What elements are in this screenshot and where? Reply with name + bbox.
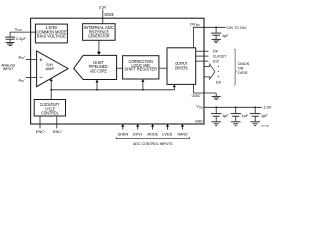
svg-text:3.3V: 3.3V (99, 6, 107, 10)
capacitor 2.2uF (5, 37, 15, 39)
node ENC+ label (36, 129, 46, 134)
node figure tag 2207 BD (261, 125, 270, 127)
svg-text:D0: D0 (216, 80, 222, 85)
svg-text:3.3V: 3.3V (263, 104, 271, 109)
wire LVDS input with arrow (167, 126, 169, 129)
node D0 label (216, 80, 222, 85)
ground below 2.2uF (9, 40, 11, 43)
block 16-BIT PIPELINED ADC CORE pentagon (74, 55, 117, 79)
wire CLKOUT output (196, 55, 209, 57)
svg-text:0.5V TO 3.6V: 0.5V TO 3.6V (227, 25, 247, 30)
node 0.5V TO 3.6V label (227, 25, 247, 30)
svg-text:BIAS VOLTAGE: BIAS VOLTAGE (37, 34, 66, 39)
node OF label (213, 48, 219, 53)
wire clock to correction logic with arrow (142, 82, 144, 90)
junction OVDD (215, 26, 217, 28)
node CMOS OR LVDS label (238, 61, 250, 75)
wire ENC+ pin (39, 116, 41, 128)
svg-text:GND: GND (195, 118, 202, 123)
wire SHDN input with arrow (122, 126, 124, 129)
wire clock distribution line (51, 87, 174, 90)
brace ADC control inputs (116, 137, 190, 139)
block OUTPUT DRIVERS (167, 48, 196, 85)
svg-text:MODE: MODE (147, 131, 158, 136)
svg-text:ENC+: ENC+ (36, 129, 46, 134)
node SENSE pin label (104, 12, 113, 17)
wire SENSE supply (102, 9, 104, 23)
svg-text:LVDS: LVDS (162, 131, 172, 136)
svg-text:VCM: VCM (15, 26, 23, 32)
svg-text:ENC−: ENC− (53, 129, 63, 134)
svg-text:SENSE: SENSE (104, 12, 113, 17)
block CORRECTION LOGIC AND SHIFT REGISTER (123, 56, 159, 79)
svg-text:AMP: AMP (45, 66, 54, 71)
svg-text:INPUT: INPUT (3, 66, 15, 71)
wire AIN+ (26, 59, 37, 61)
svg-text:ADC CONTROL INPUTS: ADC CONTROL INPUTS (133, 141, 173, 146)
node OVDD pin label (190, 21, 200, 27)
wire D15 output (196, 60, 209, 62)
wire OF output (196, 50, 209, 52)
ground below OVDD cap (215, 36, 217, 39)
svg-text:1µF: 1µF (222, 34, 229, 38)
svg-text:2.2µF: 2.2µF (16, 37, 26, 41)
node AIN+ label (18, 54, 25, 60)
wire VCM (10, 32, 35, 37)
node MODE label (147, 131, 158, 136)
junction clock line left (50, 89, 52, 91)
junction VDD cap1 (215, 106, 217, 108)
node LVDS label (162, 131, 172, 136)
svg-text:DD: DD (199, 105, 203, 109)
wire VDD supply rail (204, 106, 262, 108)
svg-text:DITH: DITH (133, 131, 142, 136)
junction clock at correction logic (142, 89, 144, 91)
junction VDD cap2 (235, 106, 237, 108)
junction VDD cap3 (254, 106, 256, 108)
wire DITH input with arrow (137, 126, 139, 129)
svg-text:SHDN: SHDN (118, 131, 129, 136)
node 3.3V label right (263, 104, 271, 109)
node VCM pin label (15, 26, 23, 32)
svg-text:SHIFT REGISTER: SHIFT REGISTER (124, 67, 157, 72)
data bus block arrow (204, 64, 215, 79)
wire clock to ADC core with arrow (96, 82, 98, 90)
node SHDN label (118, 131, 129, 136)
capacitor 1uF (VDD b) (231, 107, 241, 125)
svg-text:LVDS: LVDS (238, 70, 248, 75)
capacitor 1uF (VDD c) (250, 107, 260, 125)
svg-text:AIN−: AIN− (18, 77, 25, 83)
wire AIN- (26, 76, 37, 78)
svg-text:OGND: OGND (192, 93, 201, 98)
svg-text:ADC CORE: ADC CORE (90, 68, 107, 73)
node OGND pin label (192, 93, 201, 98)
svg-text:DRIVERS: DRIVERS (175, 65, 188, 70)
wire clock to S/H with arrow (50, 81, 52, 100)
wire ENC- pin (56, 116, 58, 128)
node ENC- label (53, 129, 63, 134)
op-amp S/H AMP (37, 51, 69, 87)
node RAND label (178, 131, 188, 136)
brace outputs (234, 49, 236, 86)
wire MODE input with arrow (152, 126, 154, 129)
wire OVDD (193, 27, 225, 48)
capacitor 1uF (OVDD) (215, 27, 217, 32)
capacitor 1uF (VDD a) (211, 107, 221, 125)
svg-text:GENERATOR: GENERATOR (88, 33, 110, 38)
node DITH label (133, 131, 142, 136)
svg-text:1µF: 1µF (222, 114, 229, 118)
node VDD pin label (196, 104, 203, 110)
wire correction logic to output drivers (159, 67, 167, 69)
block 1.575V COMMON MODE BIAS VOLTAGE (35, 24, 67, 43)
junction clock at ADC core (96, 89, 98, 91)
svg-text:CONTROL: CONTROL (41, 111, 59, 116)
svg-text:1µF: 1µF (261, 114, 268, 118)
node GND pin label (195, 118, 202, 123)
node D15 label (213, 58, 219, 63)
svg-text:1µF: 1µF (242, 114, 249, 118)
node CLKOUT label (213, 53, 227, 58)
node AIN- label (18, 77, 25, 83)
wire OGND (194, 84, 217, 93)
block INTERNAL ADC REFERENCE GENERATOR (83, 24, 116, 41)
wire clock to output drivers with arrow (173, 85, 176, 88)
wire RAND input with arrow (181, 126, 183, 129)
block CLOCK/DUTY CYCLE CONTROL (34, 100, 65, 117)
svg-text:D15: D15 (213, 58, 219, 63)
node ANALOG INPUT label (1, 62, 15, 71)
wire ADC core to correction logic (117, 67, 123, 69)
outer ADC box (31, 18, 204, 124)
svg-text:AIN+: AIN+ (18, 54, 25, 60)
node ellipsis dots outputs (218, 66, 219, 77)
svg-text:2207 BD: 2207 BD (261, 125, 270, 127)
svg-text:OVDD: OVDD (190, 21, 200, 27)
ground OGND (215, 93, 217, 96)
svg-text:RAND: RAND (178, 131, 188, 136)
wire reference to ADC core with arrow (98, 40, 100, 52)
node ADC CONTROL INPUTS label (133, 141, 173, 146)
node 3.3V supply at SENSE (99, 6, 107, 10)
